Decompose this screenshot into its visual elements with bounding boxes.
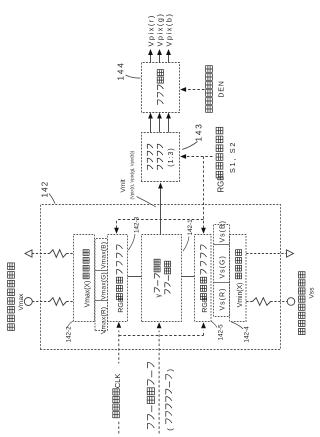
svg-text:Vmax(R): Vmax(R) <box>100 306 107 333</box>
svg-text:144: 144 <box>116 61 125 80</box>
svg-text:Vmax(G): Vmax(G) <box>100 272 107 300</box>
svg-text:142-3: 142-3 <box>133 216 140 233</box>
svg-text:142-2: 142-2 <box>65 325 72 342</box>
svg-text:Vss: Vss <box>308 286 315 298</box>
svg-text:142-1: 142-1 <box>187 218 194 235</box>
svg-text:Vs(B): Vs(B) <box>219 220 226 243</box>
svg-text:(: ( <box>165 427 174 430</box>
svg-text:Vmax(X): Vmax(X) <box>84 280 91 307</box>
svg-text:γ: γ <box>155 293 162 297</box>
svg-text:142: 142 <box>40 180 49 197</box>
svg-text:(1:3): (1:3) <box>168 147 175 166</box>
svg-text:Vs(G): Vs(G) <box>219 255 226 278</box>
svg-text:Vmax(B): Vmax(B) <box>100 241 107 268</box>
svg-text:Vs(R): Vs(R) <box>219 287 226 310</box>
svg-text:142-5: 142-5 <box>217 323 224 340</box>
svg-text:142-4: 142-4 <box>243 325 250 342</box>
svg-text:S1, S2: S1, S2 <box>228 140 237 172</box>
svg-text:DEN: DEN <box>218 80 225 97</box>
svg-text:Vpix(r): Vpix(r) <box>146 14 155 46</box>
svg-text:Vpix(g): Vpix(g) <box>155 12 164 46</box>
svg-text:(Vpix(r), Vpix(g), Vpix(b)): (Vpix(r), Vpix(g), Vpix(b)) <box>129 150 134 199</box>
svg-text:Vpix(b): Vpix(b) <box>164 12 173 46</box>
svg-text:CLK: CLK <box>112 373 121 388</box>
svg-text:Vmin(X): Vmin(X) <box>237 282 244 307</box>
svg-text:Vmax: Vmax <box>17 292 24 310</box>
svg-text:Vmlt: Vmlt <box>120 179 127 192</box>
svg-text:): ) <box>165 368 174 371</box>
svg-text:143: 143 <box>194 122 203 141</box>
